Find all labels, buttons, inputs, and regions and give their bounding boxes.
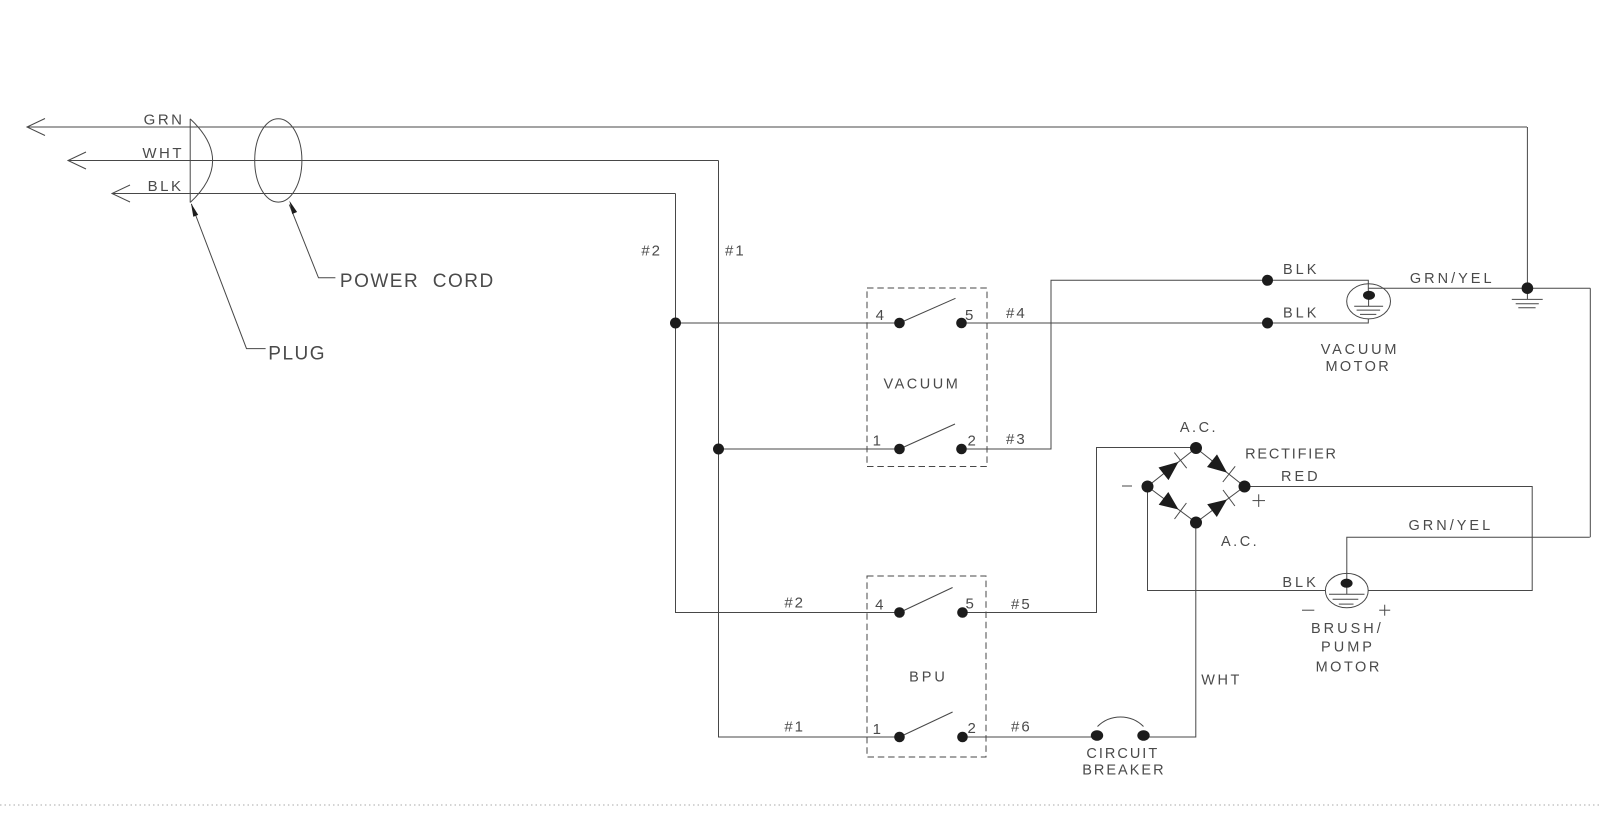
svg-text:BLK: BLK	[1283, 306, 1319, 322]
svg-text:#2: #2	[641, 243, 662, 260]
svg-text:A.C.: A.C.	[1221, 534, 1259, 550]
svg-text:#6: #6	[1011, 719, 1032, 736]
svg-text:BRUSH/: BRUSH/	[1311, 621, 1384, 637]
svg-text:VACUUM: VACUUM	[1321, 342, 1400, 358]
svg-text:2: 2	[968, 720, 978, 737]
svg-text:BLK: BLK	[1282, 575, 1318, 591]
svg-text:5: 5	[965, 307, 975, 324]
svg-text:PUMP: PUMP	[1321, 640, 1375, 656]
svg-text:#3: #3	[1006, 431, 1027, 448]
svg-text:2: 2	[968, 433, 978, 450]
svg-text:#1: #1	[784, 719, 805, 736]
svg-text:5: 5	[966, 596, 976, 613]
svg-text:RED: RED	[1281, 469, 1321, 485]
svg-text:WHT: WHT	[1201, 673, 1242, 689]
svg-text:GRN/YEL: GRN/YEL	[1409, 518, 1494, 534]
svg-text:MOTOR: MOTOR	[1325, 359, 1391, 375]
svg-text:VACUUM: VACUUM	[884, 377, 961, 393]
svg-text:MOTOR: MOTOR	[1316, 660, 1382, 676]
svg-text:#4: #4	[1006, 305, 1027, 322]
svg-text:BLK: BLK	[1283, 262, 1319, 278]
svg-text:BPU: BPU	[909, 670, 948, 686]
svg-text:RECTIFIER: RECTIFIER	[1245, 446, 1338, 462]
svg-text:CIRCUIT: CIRCUIT	[1086, 746, 1159, 762]
svg-text:PLUG: PLUG	[268, 344, 326, 365]
svg-text:#2: #2	[784, 595, 805, 612]
svg-text:4: 4	[876, 307, 886, 324]
svg-text:GRN: GRN	[144, 112, 185, 129]
svg-text:WHT: WHT	[142, 145, 184, 162]
svg-text:A.C.: A.C.	[1180, 420, 1218, 436]
svg-text:1: 1	[873, 721, 883, 738]
svg-text:BREAKER: BREAKER	[1082, 762, 1165, 778]
svg-text:4: 4	[875, 597, 885, 614]
svg-text:#5: #5	[1011, 596, 1032, 613]
svg-text:BLK: BLK	[148, 178, 184, 195]
svg-text:POWER CORD: POWER CORD	[340, 271, 495, 292]
svg-text:#1: #1	[725, 243, 746, 260]
svg-text:GRN/YEL: GRN/YEL	[1410, 271, 1495, 287]
svg-text:1: 1	[873, 433, 883, 450]
